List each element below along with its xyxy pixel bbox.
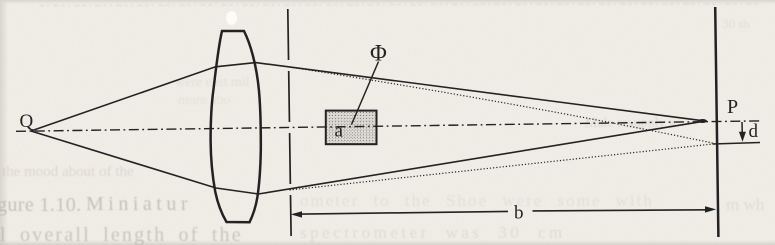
dimension d arrow xyxy=(741,122,743,136)
svg-text:m wh: m wh xyxy=(726,195,765,214)
svg-text:Q: Q xyxy=(20,111,34,132)
svg-text:P: P xyxy=(727,96,738,118)
top scan edge shading xyxy=(0,0,775,4)
arrowhead b left xyxy=(291,211,302,217)
lens xyxy=(211,31,261,222)
svg-text:ometer to the Shoe were some w: ometer to the Shoe were some with xyxy=(300,191,654,210)
svg-text:Miniatur: Miniatur xyxy=(86,193,192,215)
svg-text:more abo: more abo xyxy=(178,93,230,108)
svg-text:gure 1.10.: gure 1.10. xyxy=(0,194,82,216)
svg-text:spectrometer was 30 cm: spectrometer was 30 cm xyxy=(300,223,566,242)
wire: lower dotted ray xyxy=(290,144,715,190)
wire: lower marginal ray Q to lens to focus P xyxy=(31,121,704,194)
svg-text:30 sh: 30 sh xyxy=(722,16,750,31)
arrowhead b right xyxy=(705,206,716,212)
focus blob at P xyxy=(698,119,707,123)
svg-text:a: a xyxy=(335,121,344,142)
wire: upper marginal ray Q to lens to focus P xyxy=(31,63,704,131)
image screen (right vertical line) xyxy=(715,7,718,237)
svg-text:the mood about of the: the mood about of the xyxy=(2,164,134,180)
arrowhead d down xyxy=(739,132,746,142)
node Q vertex / optical axis (dash-dot centerline) xyxy=(16,121,760,131)
detector aperture a (stippled rectangle) xyxy=(326,111,377,145)
wire: upper dotted ray xyxy=(290,67,715,143)
dimension b shaft (right part) xyxy=(533,210,708,211)
svg-text:l overall length of the: l overall length of the xyxy=(0,224,243,245)
leader line from phi label to rectangle xyxy=(352,62,379,125)
svg-text:d: d xyxy=(749,121,759,142)
spot-size base line right of screen xyxy=(713,143,761,145)
dimension b shaft (left part) xyxy=(294,211,509,214)
svg-text:Φ: Φ xyxy=(370,41,387,66)
white correction blob above lens xyxy=(226,11,237,25)
top faint dotted rule xyxy=(40,4,760,6)
bottom scan edge shading xyxy=(0,240,775,245)
left scan edge shading xyxy=(0,0,8,245)
aperture plane (dashed vertical line) xyxy=(288,9,291,236)
svg-text:b: b xyxy=(514,203,524,224)
